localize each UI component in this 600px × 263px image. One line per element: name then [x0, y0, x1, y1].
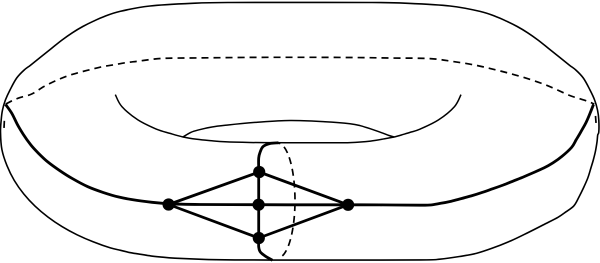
meridian circle, hidden back half (dashed) — [279, 143, 296, 257]
graph edge L-B — [169, 205, 259, 239]
graph edge B-R — [259, 205, 348, 238]
vertex B — [253, 232, 265, 244]
equator back: short hidden continuation below left junction — [4, 104, 6, 128]
vertex T — [253, 166, 265, 178]
graph edge T-R — [259, 172, 348, 205]
equator circle, hidden back half (dashed) — [6, 57, 595, 104]
torus inner hole lip (smile arc) — [115, 95, 461, 143]
meridian circle, visible front half (thick, through vertices T,C,B) — [259, 143, 279, 260]
equator circle, visible front half (thick) — [6, 104, 594, 205]
equator back: short hidden continuation below right junction — [594, 104, 596, 124]
torus inner hole opening (lens top arc) — [183, 120, 394, 137]
vertex C (hub) — [253, 199, 265, 211]
graph edge L-T — [169, 172, 260, 205]
vertex R — [342, 199, 354, 211]
vertex L — [163, 198, 175, 210]
